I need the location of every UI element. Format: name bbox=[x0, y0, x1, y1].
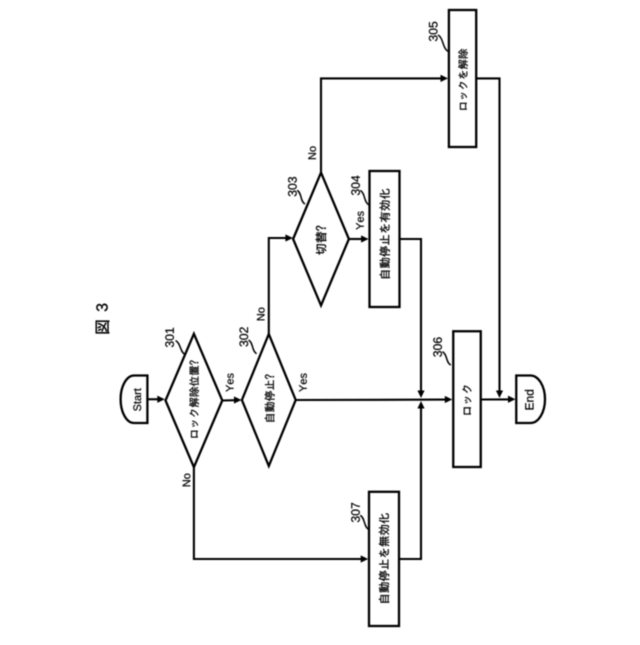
wire 301 No to 307 bbox=[183, 467, 369, 562]
decision 301 lock-release-position? bbox=[165, 328, 222, 467]
wire 307 out to spine bbox=[399, 401, 425, 559]
process 304 enable auto-stop bbox=[351, 171, 399, 307]
wire 303 No to 305 bbox=[308, 75, 448, 173]
decision 302 auto-stop? bbox=[239, 327, 295, 466]
figure label 図3 bbox=[96, 304, 110, 334]
terminal Start bbox=[121, 376, 148, 424]
process 305 release lock bbox=[429, 10, 476, 147]
process 307 disable auto-stop bbox=[351, 492, 399, 626]
wire 302 Yes to 306 spine bbox=[296, 373, 453, 403]
wire 304 out to spine bbox=[400, 239, 425, 398]
wire Start to 301 bbox=[147, 396, 164, 403]
wire 303 Yes to 304 bbox=[349, 211, 369, 242]
wire 306 to End bbox=[481, 396, 516, 403]
decision 303 switch? bbox=[288, 173, 349, 306]
wire 301 Yes to 302 bbox=[222, 373, 241, 403]
terminal End bbox=[516, 376, 545, 424]
process 306 lock bbox=[433, 331, 480, 467]
wire 305 out to spine bbox=[476, 78, 503, 398]
wire 302 No to 303 bbox=[257, 234, 293, 334]
